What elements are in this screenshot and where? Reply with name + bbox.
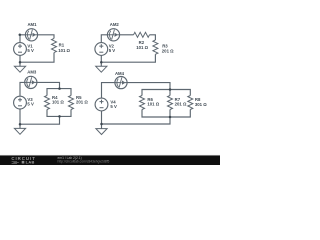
svg-text:101 Ω: 101 Ω xyxy=(52,100,64,105)
svg-text:R1: R1 xyxy=(59,42,65,47)
svg-text:AM4: AM4 xyxy=(115,71,125,76)
svg-text:301 Ω: 301 Ω xyxy=(195,102,207,107)
svg-text:5 V: 5 V xyxy=(27,102,34,107)
svg-text:101 Ω: 101 Ω xyxy=(147,102,159,107)
svg-text:201 Ω: 201 Ω xyxy=(162,48,174,53)
svg-text:AM2: AM2 xyxy=(110,22,120,27)
svg-text:5 V: 5 V xyxy=(109,48,116,53)
svg-text:201 Ω: 201 Ω xyxy=(76,100,88,105)
svg-text:AM3: AM3 xyxy=(27,70,37,75)
svg-text:5 V: 5 V xyxy=(27,48,34,53)
svg-text:101 Ω: 101 Ω xyxy=(58,48,70,53)
svg-text:LAB: LAB xyxy=(26,160,35,165)
svg-text:5 V: 5 V xyxy=(110,104,117,109)
svg-text:http://circuitlab.com/c843ehgv: http://circuitlab.com/c843ehgv2d8f5 xyxy=(58,160,110,164)
svg-text:201 Ω: 201 Ω xyxy=(175,102,187,107)
svg-text:AM1: AM1 xyxy=(27,22,37,27)
svg-text:101 Ω: 101 Ω xyxy=(136,45,148,50)
